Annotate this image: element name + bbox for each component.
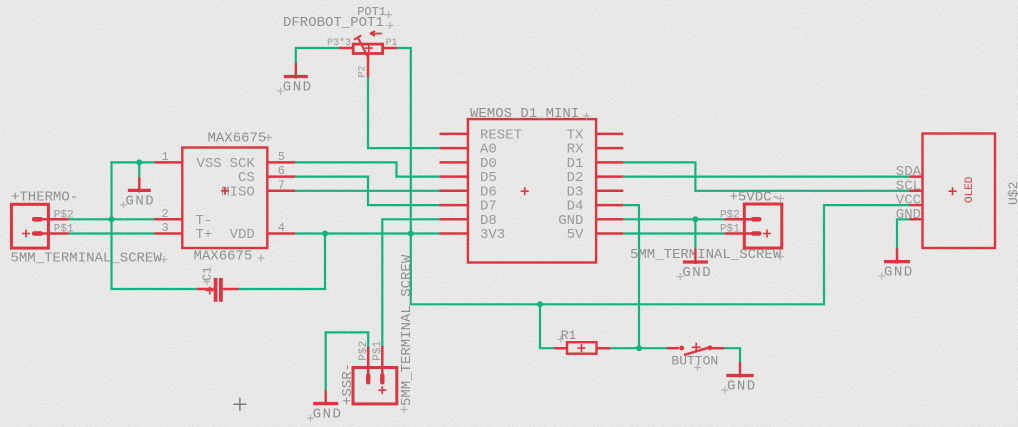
wire button to ground bbox=[724, 348, 740, 362]
wire 3V3 to C1 right bbox=[239, 234, 326, 290]
ground GND (button) bbox=[721, 362, 756, 395]
potentiometer POT1 DFROBOT_POT1 bbox=[283, 5, 398, 78]
svg-text:MAX6675: MAX6675 bbox=[208, 131, 267, 147]
wire MISO to D6 bbox=[295, 190, 440, 192]
svg-text:T+: T+ bbox=[196, 227, 213, 243]
svg-text:P$2: P$2 bbox=[54, 209, 74, 221]
svg-text:MISO: MISO bbox=[221, 184, 255, 200]
svg-text:5MM_TERMINAL_SCREW: 5MM_TERMINAL_SCREW bbox=[399, 254, 415, 406]
wire WEMOS 5V to 5VDC P$1 bbox=[623, 232, 724, 234]
wire D2 to OLED SDA bbox=[623, 176, 909, 178]
svg-text:GND: GND bbox=[313, 407, 343, 423]
svg-text:4: 4 bbox=[278, 221, 285, 235]
wire VSS GND branch bbox=[138, 162, 140, 177]
wire CS to D7 bbox=[295, 177, 440, 206]
svg-text:1: 1 bbox=[162, 150, 169, 164]
svg-text:GND: GND bbox=[682, 265, 712, 281]
svg-text:VDD: VDD bbox=[230, 227, 255, 243]
svg-text:P$1: P$1 bbox=[372, 340, 384, 360]
ground GND (SSR) bbox=[307, 390, 342, 423]
wire 3V3 branch to R1 bbox=[540, 304, 554, 348]
wire WEMOS GND to 5VDC P$2 bbox=[623, 218, 724, 220]
svg-text:GND: GND bbox=[884, 265, 914, 281]
svg-text:5V: 5V bbox=[567, 227, 584, 243]
switch BUTTON bbox=[667, 343, 724, 371]
display U$2 OLED bbox=[896, 134, 1018, 249]
svg-text:C1: C1 bbox=[201, 267, 215, 281]
wire VSS net to C1 left bbox=[112, 162, 197, 289]
wire VDD to 3V3 bbox=[295, 232, 440, 234]
wire GND branch at 5VDC bbox=[694, 219, 696, 249]
wire SCK to D5 bbox=[295, 162, 440, 176]
svg-text:P$1: P$1 bbox=[54, 224, 74, 236]
svg-text:WEMOS_D1_MINI: WEMOS_D1_MINI bbox=[470, 106, 579, 122]
wire D1 to OLED SCL bbox=[623, 162, 909, 190]
ground GND (MAX6675 VSS) bbox=[120, 177, 155, 210]
svg-text:P1: P1 bbox=[386, 38, 398, 49]
svg-text:2: 2 bbox=[162, 207, 169, 221]
svg-text:6: 6 bbox=[278, 164, 285, 178]
svg-text:P$2: P$2 bbox=[720, 209, 740, 221]
svg-text:GND: GND bbox=[727, 379, 757, 395]
junction node 3V3/C1 bbox=[322, 231, 328, 237]
wire SSR P$2 to ground bbox=[326, 332, 369, 390]
svg-text:+5VDC-: +5VDC- bbox=[730, 190, 780, 206]
svg-text:P$1: P$1 bbox=[720, 224, 740, 236]
svg-text:MAX6675: MAX6675 bbox=[194, 249, 253, 265]
junction node GND/5VDC bbox=[692, 216, 698, 222]
svg-text:U$2: U$2 bbox=[1006, 182, 1018, 205]
IC U1 MAX6675 bbox=[155, 131, 296, 265]
svg-text:GND: GND bbox=[896, 207, 921, 223]
junction node VSS/GND bbox=[136, 159, 142, 165]
connector +THERMO- 5MM_TERMINAL_SCREW bbox=[11, 189, 168, 266]
wire THERMO P$2 to T- bbox=[69, 218, 155, 220]
ground GND (pot) bbox=[277, 63, 312, 96]
module U2 WEMOS_D1_MINI bbox=[440, 106, 624, 263]
svg-text:BUTTON: BUTTON bbox=[671, 354, 718, 369]
capacitor C1 bbox=[197, 267, 239, 302]
resistor R1 bbox=[554, 328, 610, 354]
svg-text:OLED: OLED bbox=[964, 176, 976, 203]
sheet origin cross bbox=[233, 398, 246, 411]
svg-text:3: 3 bbox=[162, 221, 169, 235]
svg-text:5: 5 bbox=[278, 150, 285, 164]
svg-text:GND: GND bbox=[283, 80, 313, 96]
svg-text:3V3: 3V3 bbox=[480, 227, 505, 243]
svg-text:GND: GND bbox=[126, 193, 156, 209]
connector +SSR- 5MM_TERMINAL_SCREW bbox=[340, 254, 415, 413]
wire THERMO P$1 to T+ bbox=[69, 232, 155, 234]
ground GND (OLED) bbox=[878, 248, 913, 281]
svg-text:VSS: VSS bbox=[197, 156, 222, 172]
svg-text:+THERMO-: +THERMO- bbox=[11, 189, 78, 205]
svg-text:+SSR-: +SSR- bbox=[340, 363, 356, 405]
connector +5VDC- 5MM_TERMINAL_SCREW bbox=[630, 190, 784, 264]
junction node 3V3/R1 branch bbox=[537, 301, 543, 307]
junction node D4/R1/button bbox=[636, 345, 642, 351]
svg-text:DFROBOT_POT1: DFROBOT_POT1 bbox=[283, 15, 384, 31]
wire R1 to button bbox=[610, 347, 667, 349]
ground GND (5VDC) bbox=[677, 249, 712, 282]
wire POT P1 to 3V3 net bbox=[397, 48, 411, 234]
svg-text:5MM_TERMINAL_SCREW: 5MM_TERMINAL_SCREW bbox=[11, 251, 163, 267]
wire D8 to SSR P$1 bbox=[382, 219, 439, 347]
svg-text:P$2: P$2 bbox=[358, 341, 370, 361]
svg-text:R1: R1 bbox=[561, 328, 577, 343]
wire OLED GND to ground bbox=[897, 219, 910, 248]
wire 3V3 to OLED VCC bbox=[411, 205, 910, 304]
wire POT P2 to A0 bbox=[368, 77, 440, 148]
svg-text:P2: P2 bbox=[358, 65, 369, 77]
svg-text:P3*3: P3*3 bbox=[327, 37, 351, 49]
wire POT P3*3 to GND bbox=[296, 48, 339, 65]
junction node T-/GND bbox=[109, 216, 115, 222]
wire D4 down to R1/button node bbox=[623, 205, 639, 348]
junction node 3V3/P1/VCC bbox=[408, 231, 414, 237]
svg-text:7: 7 bbox=[278, 178, 285, 192]
